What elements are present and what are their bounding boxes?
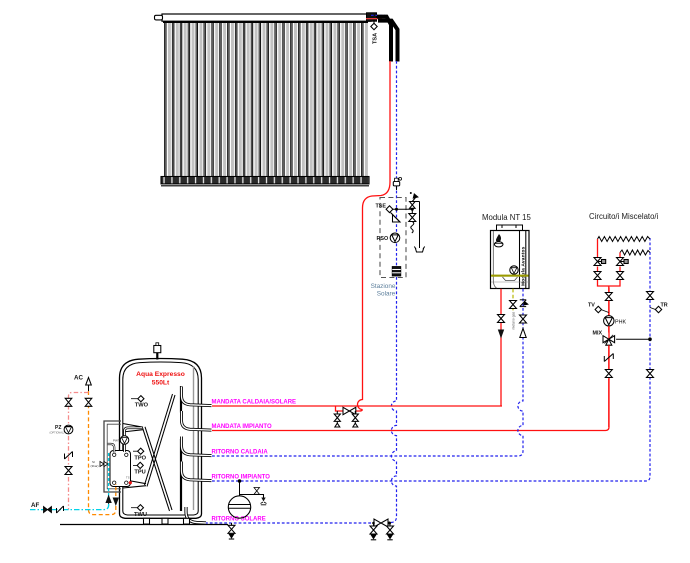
tank outer shell — [120, 359, 202, 519]
drain valve right of bypass — [352, 411, 358, 427]
wire: cyan cold feed inside module — [108, 453, 110, 497]
module red sensor dot — [129, 481, 132, 484]
svg-text:MANDATA CALDAIA/SOLARE: MANDATA CALDAIA/SOLARE — [212, 400, 297, 406]
node: junction on blue return — [648, 337, 652, 341]
valve on boiler flow — [498, 315, 505, 323]
wire: safety branch line — [393, 208, 414, 210]
wire: gas yellow dashed drop — [512, 289, 514, 311]
svg-text:550Lt: 550Lt — [152, 380, 170, 387]
check valve on AF — [57, 506, 64, 513]
solar station dashed enclosure — [380, 198, 406, 278]
wire: solar flow red pipe from collector to manifold — [358, 61, 391, 410]
thermostatic valve 1 — [594, 258, 606, 266]
collector bottom bar — [161, 177, 369, 184]
boiler yellow band — [491, 275, 529, 277]
svg-text:Modula NT 15: Modula NT 15 — [482, 213, 531, 222]
pump RSO — [377, 233, 400, 243]
thermostatic valve 2 — [617, 258, 629, 266]
small valve on vessel branch — [254, 488, 260, 495]
boiler pump circle — [510, 266, 518, 274]
balancing valve (solar station bottom) — [392, 267, 401, 277]
node: ritorno solare junction — [388, 522, 391, 525]
svg-text:Modula Avantos: Modula Avantos — [521, 246, 527, 286]
drain funnel — [414, 247, 424, 253]
valve below safety junction — [409, 209, 416, 233]
sensor TSA — [371, 18, 379, 44]
wire: MANDATA IMPIANTO red main — [212, 288, 609, 431]
wire: collector outlet blue dashed stub — [371, 14, 385, 16]
radiator zigzag 2 — [620, 250, 650, 255]
drain valve left (ritorno solare) — [370, 523, 377, 540]
boiler tray — [503, 277, 518, 281]
valve on mandata bypass — [343, 407, 356, 414]
svg-text:TWO: TWO — [135, 403, 149, 409]
filter symbol on boiler return — [520, 300, 528, 307]
svg-text:(OPTIONAL): (OPTIONAL) — [50, 431, 65, 435]
wire: pump to mixing valve — [608, 326, 610, 333]
expansion vessel — [228, 496, 250, 518]
svg-text:TPU: TPU — [134, 470, 145, 476]
tank internal coil X line B — [143, 427, 173, 511]
svg-text:MANDATA IMPIANTO: MANDATA IMPIANTO — [212, 424, 272, 430]
boiler Modula NT 15 — [482, 213, 531, 289]
insulated solar pipe A (flow) — [377, 17, 391, 62]
wire: AF cyan line — [30, 503, 109, 510]
node: safety valve junction — [411, 208, 414, 211]
arrow AC up — [86, 378, 92, 386]
svg-text:TSE: TSE — [376, 204, 387, 210]
wire: AC orange line — [89, 391, 116, 515]
arrow down on boiler flow — [498, 330, 504, 339]
svg-text:TSA: TSA — [373, 33, 379, 44]
check valve on recirc line — [65, 452, 73, 460]
tank connection hook (mandata caldaia/solare) — [182, 387, 212, 406]
tank bottom elbow (ritorno solare) — [186, 507, 206, 523]
svg-text:AC: AC — [74, 375, 83, 382]
collector tube field — [163, 22, 368, 177]
valve on gas line — [510, 301, 517, 309]
shutoff valve 2 — [617, 272, 624, 280]
module pump — [120, 436, 129, 445]
svg-text:RITORNO SOLARE: RITORNO SOLARE — [212, 516, 266, 522]
pump PHK — [604, 316, 627, 326]
fresh water module bracket — [104, 421, 121, 492]
boiler body — [491, 231, 530, 289]
node: TSE junction — [395, 208, 398, 211]
wire: vessel branch to drain — [240, 495, 264, 498]
svg-text:TS: TS — [126, 476, 130, 480]
hx ports — [113, 453, 129, 484]
svg-text:Stazione: Stazione — [371, 283, 396, 290]
svg-text:PWT: PWT — [113, 439, 120, 443]
collector header right connector — [367, 13, 377, 21]
drain valve left of bypass — [334, 411, 340, 427]
sensor TSE — [376, 204, 393, 213]
mixing valve MIX — [593, 331, 615, 346]
svg-text:TV: TV — [588, 303, 595, 309]
sensor TWU — [131, 505, 147, 518]
module pump pipe loop — [125, 428, 143, 452]
solar collector panel — [155, 13, 377, 186]
wire: mix to return junction — [616, 338, 650, 340]
arrow up on boiler return — [520, 329, 526, 338]
valve on recirc line — [65, 398, 72, 406]
tank internal coil X line A — [145, 394, 176, 487]
sensor TR — [650, 303, 668, 313]
valve on mixed return upper — [647, 292, 654, 300]
wire: orange hot outlet inside module — [115, 484, 117, 496]
svg-text:TWU: TWU — [134, 512, 147, 518]
shutoff valve 1 — [594, 272, 601, 280]
wire: RITORNO IMPIANTO blue dashed main — [212, 238, 650, 481]
tank connection hook (ritorno caldaia) — [182, 437, 212, 456]
tank upper port funnel — [123, 424, 143, 433]
svg-text:MIX: MIX — [593, 331, 603, 337]
label Stazione Solare — [371, 283, 396, 298]
tank top vent fitting — [154, 343, 161, 360]
svg-text:(3bar): (3bar) — [91, 464, 99, 468]
arrow down (hot out of module) — [113, 498, 119, 507]
valve on boiler return — [520, 315, 527, 323]
tank internal baffle lower — [180, 439, 182, 511]
storage tank Aqua Expresso 550Lt — [120, 359, 202, 519]
svg-text:Circuito/i Miscelato/i: Circuito/i Miscelato/i — [589, 212, 659, 221]
sensor TV — [588, 303, 609, 313]
svg-text:TR: TR — [661, 303, 668, 309]
wire: solar return blue dashed vertical — [390, 61, 397, 523]
pump PZ — [50, 425, 73, 435]
valve on recirc line lower — [65, 467, 72, 475]
valve on ritorno solare — [374, 519, 388, 527]
boiler top cap — [497, 225, 523, 231]
svg-text:TPO: TPO — [134, 456, 146, 462]
sensor TPU — [133, 462, 146, 475]
collector header bar — [162, 14, 371, 21]
collector tube top line — [163, 21, 368, 23]
tank inner shading line — [193, 366, 195, 510]
air vent on solar return — [393, 177, 401, 190]
svg-text:metano gas: metano gas — [512, 311, 516, 329]
svg-text:RITORNO IMPIANTO: RITORNO IMPIANTO — [212, 474, 271, 480]
svg-text:RSO: RSO — [377, 236, 389, 242]
tank lower port funnel — [123, 480, 146, 489]
wire: RITORNO CALDAIA blue dashed main — [212, 455, 518, 457]
svg-text:Solare: Solare — [377, 291, 396, 298]
boiler flame logo — [496, 234, 501, 242]
valve on mixed flow — [605, 293, 612, 301]
collector bottom lower line — [161, 185, 369, 187]
wire: relief discharge down — [419, 202, 421, 249]
sensor TPO — [133, 448, 147, 462]
shutoff valve on AF (filled) — [44, 507, 52, 513]
wire: boiler flow red drop — [500, 289, 502, 406]
safety valve with flag — [410, 192, 420, 209]
module sensor on bracket — [100, 462, 108, 467]
drain valve below ritorno solare line — [228, 523, 235, 539]
drain valve right (ritorno solare) — [387, 523, 394, 540]
node: expansion vessel junction — [238, 479, 242, 483]
floor line — [60, 524, 228, 526]
boiler right strip — [519, 231, 521, 288]
collector header left cap — [155, 15, 163, 20]
svg-text:Aqua Expresso: Aqua Expresso — [136, 371, 185, 378]
wire: MANDATA CALDAIA/SOLARE red main — [212, 405, 502, 407]
svg-text:PHK: PHK — [615, 319, 626, 325]
check valve in solar station — [391, 213, 401, 223]
wire: mixed red down to pump — [608, 301, 610, 316]
wire: boiler return blue dashed drop — [518, 289, 523, 456]
wire: expansion vessel drop — [239, 481, 241, 496]
svg-text:RITORNO CALDAIA: RITORNO CALDAIA — [212, 449, 269, 455]
wire: collector outlet red stub — [366, 18, 382, 20]
valve on mixed flow lower — [605, 370, 612, 378]
radiator zigzag 1 — [598, 237, 651, 242]
insulated solar pipe B (return) — [378, 21, 398, 62]
valve on mixed return lower — [647, 370, 654, 378]
sensor TWO — [131, 396, 149, 409]
drain arrow on vessel branch — [261, 498, 265, 502]
tank feet — [144, 518, 190, 524]
boiler left seam — [493, 231, 496, 288]
valve on AC line — [85, 398, 92, 406]
tank connection hook (mandata impianto) — [182, 411, 212, 430]
wire: recirculation pink line — [69, 393, 89, 510]
tank internal baffle upper — [180, 386, 182, 413]
svg-text:AF: AF — [31, 502, 39, 509]
check valve below mix — [604, 354, 613, 362]
tank inner shell — [123, 362, 198, 515]
tank connection hook (ritorno impianto) — [182, 462, 212, 481]
arrow up (cold into module) — [105, 495, 111, 504]
fresh water module plate heat exchanger — [110, 451, 131, 487]
wire: below mix red — [608, 345, 610, 427]
wire: RITORNO SOLARE blue dashed main — [205, 522, 374, 524]
label Aqua Expresso 550Lt — [136, 371, 185, 387]
svg-text:PZ: PZ — [55, 425, 61, 431]
wire: mixed circuit red risers — [597, 239, 599, 257]
